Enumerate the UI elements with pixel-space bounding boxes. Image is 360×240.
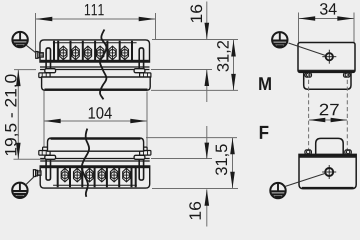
insert2 PE screw — [33, 170, 41, 177]
insert1 PE screw — [36, 52, 44, 59]
ext line d1 bottom — [151, 89, 238, 91]
insert1 body — [42, 77, 151, 90]
F body second top line — [299, 156, 356, 158]
dim line 104 — [44, 120, 147, 122]
dashed line right — [346, 73, 348, 186]
dim 16 bottom upper segment — [206, 126, 208, 159]
right cap — [142, 78, 147, 81]
arrow 16 bottom down — [205, 143, 210, 160]
drawing 1: male insert front view — [36, 30, 151, 100]
label 16 bottom — [189, 202, 201, 219]
arrow 34 right — [337, 16, 354, 21]
left nut — [39, 73, 50, 78]
left bracket bar — [139, 159, 143, 180]
left bracket foot — [134, 155, 145, 159]
dim line 111 — [36, 18, 155, 20]
ext line d1 mid — [151, 69, 212, 71]
arrow 31,5 down — [230, 172, 235, 189]
ext line 34 right — [353, 13, 355, 43]
right bracket foot — [134, 69, 145, 73]
right cap — [43, 147, 48, 150]
label 104 — [89, 107, 112, 119]
F leader — [285, 173, 325, 186]
F PE symbol — [270, 183, 285, 198]
left cap — [142, 147, 147, 150]
M tab right — [344, 73, 351, 77]
F tab right — [345, 150, 352, 155]
ext line left upper — [14, 69, 36, 71]
cells top line — [53, 42, 137, 44]
ext line 34 left — [298, 13, 300, 43]
right nut — [39, 151, 50, 156]
cell walls — [58, 168, 136, 187]
M body — [298, 43, 355, 73]
label 19,5 - 21,0 — [5, 74, 19, 155]
ext line d2 mid — [151, 158, 212, 160]
M body inner bottom line — [298, 69, 355, 71]
dim line 27 — [309, 119, 347, 121]
insert1 body bottom thick — [45, 88, 148, 90]
dim line 31,2 — [233, 40, 235, 90]
left cap — [43, 78, 48, 81]
flange line 1 — [40, 160, 150, 162]
ext line d2 bottom — [152, 188, 238, 190]
M tab left — [305, 73, 312, 77]
terminal screws — [60, 46, 129, 60]
arrow 27 left — [309, 118, 326, 123]
flange line 2 — [40, 158, 150, 160]
ext line d1 top — [152, 39, 238, 41]
M PE symbol — [272, 32, 287, 47]
insert2 body — [48, 138, 144, 151]
right bracket bar — [46, 159, 50, 180]
ground symbol 1 — [12, 32, 27, 47]
arrow 31,2 up — [231, 40, 236, 57]
M hole — [322, 50, 336, 64]
ground1 leader — [26, 45, 37, 53]
dim 16 bottom lower segment — [206, 189, 208, 226]
arrow 19,5-21,0 down — [16, 143, 21, 160]
ground symbol 2 — [12, 183, 27, 198]
ext line left lower — [14, 158, 45, 160]
arrow 27 right — [331, 118, 348, 123]
insert1 break wave — [100, 30, 106, 100]
insert2 body top thick — [51, 137, 141, 139]
left nut — [140, 151, 151, 156]
left bracket bar — [46, 48, 50, 69]
label 34 — [320, 3, 337, 15]
F body top band — [300, 155, 356, 157]
arrow 34 left — [299, 16, 316, 21]
dashed line left — [308, 73, 310, 186]
terminal row bottom band — [41, 60, 149, 63]
right bracket bar — [139, 48, 143, 69]
dim 16 top lower segment — [206, 70, 208, 102]
F body — [299, 154, 356, 188]
label F — [260, 126, 269, 139]
ext line 104 right — [146, 92, 148, 152]
M collar — [304, 72, 351, 89]
terminal row bottom band — [41, 166, 149, 169]
label 16 top — [190, 5, 202, 22]
terminal strip outline — [40, 40, 150, 62]
arrow 111 left — [36, 17, 53, 22]
F body bottom thick — [302, 187, 354, 189]
label 31,2 — [217, 41, 231, 72]
F hole — [322, 165, 336, 179]
M body bottom band — [299, 71, 355, 72]
insert2 break wave — [82, 129, 89, 197]
F tab left — [305, 150, 312, 155]
label M — [259, 77, 271, 90]
flange line 1 — [40, 66, 150, 68]
arrow 16 top down — [205, 23, 210, 40]
drawing 2: female insert front view (rotated strip assembly) — [39, 147, 151, 188]
M leader — [289, 43, 326, 56]
arrow 31,5 up — [230, 138, 235, 155]
ground2 leader — [26, 176, 35, 185]
dim line 34 — [299, 18, 354, 20]
arrow 16 bottom up — [205, 189, 210, 206]
left bracket foot — [45, 69, 56, 73]
arrow 19,5-21,0 up — [16, 70, 21, 87]
arrow 16 top up — [205, 70, 210, 87]
arrow 31,2 down — [231, 74, 236, 91]
arrow 104 right — [130, 119, 147, 124]
arrow 111 right — [139, 17, 156, 22]
dim line 31,5 — [232, 138, 234, 188]
terminal strip outline — [40, 166, 150, 188]
label 31,5 — [215, 144, 229, 175]
ext line 104 left — [43, 79, 45, 156]
ext line 111 right — [155, 13, 157, 40]
cells top line — [53, 184, 137, 186]
flange line 2 — [40, 69, 150, 71]
cell walls — [54, 41, 132, 60]
terminal screws — [61, 168, 130, 182]
ext line 111 left — [35, 13, 37, 51]
dim line 19,5-21,0 — [17, 70, 19, 159]
right nut — [140, 73, 151, 78]
right bracket foot — [45, 155, 56, 159]
label 27 — [320, 104, 339, 116]
dim 16 top upper segment — [206, 2, 208, 40]
F bump — [316, 138, 344, 157]
ext line d2 top — [146, 137, 237, 139]
label 111 — [85, 4, 104, 15]
arrow 104 left — [44, 119, 61, 124]
